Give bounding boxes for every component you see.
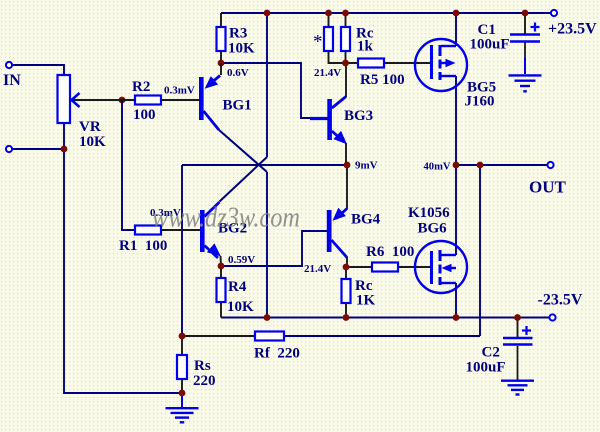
node 9mV — [344, 162, 351, 169]
resistor Rc 1K bottom — [342, 279, 351, 303]
svg-text:J160: J160 — [465, 94, 495, 110]
node BG5 drain at +rail — [453, 10, 460, 17]
wire OUT to Rf vertical x=480 — [479, 165, 481, 336]
wire BG2 collector diagonal (cross-couple) — [220, 157, 268, 202]
resistor Rf 220 — [255, 332, 284, 341]
svg-text:R5 100: R5 100 — [360, 72, 405, 88]
wire BG1 collector to -rail (vertical x=266) — [266, 172, 268, 318]
wire C1 to ground — [524, 43, 526, 61]
ground main — [166, 407, 199, 409]
wire BG4 collector to 21.4V node — [346, 257, 348, 267]
svg-text:1k: 1k — [357, 39, 374, 55]
terminal -23.5V — [549, 314, 555, 320]
terminal +23.5V — [551, 10, 557, 16]
resistor R1 100 — [135, 226, 161, 235]
svg-text:BG3: BG3 — [344, 108, 373, 124]
wire Rc-bottom leads — [345, 267, 347, 318]
svg-text:VR: VR — [79, 119, 101, 135]
svg-text:R1 100: R1 100 — [119, 238, 167, 254]
svg-text:BG4: BG4 — [351, 212, 381, 228]
wire BG3 collector to 21.4V node — [345, 63, 347, 97]
node Rs bottom / ground — [179, 390, 186, 397]
svg-text:100uF: 100uF — [466, 360, 506, 376]
capacitor C2 100uF — [503, 337, 533, 340]
svg-text:-23.5V: -23.5V — [538, 292, 583, 309]
svg-text:BG1: BG1 — [223, 98, 252, 114]
resistor R2 100 — [135, 96, 161, 105]
wire R5 row to BG5 gate — [346, 62, 432, 64]
transistor BG3 (NPN) — [327, 99, 332, 140]
svg-text:1K: 1K — [356, 293, 376, 309]
transistor BG4 (PNP) — [327, 210, 332, 252]
wire VR bottom down and right to Rs ground — [64, 123, 182, 393]
MOSFET BG6 K1056 (N-channel) — [415, 241, 467, 293]
node Rc-top at +rail — [342, 10, 349, 17]
wire C2 to -rail — [517, 318, 519, 338]
wire IN top to VR — [11, 65, 64, 75]
wire BG3 emitter to 9mV node — [345, 143, 347, 165]
resistor R6 100 — [372, 263, 398, 272]
MOSFET BG5 J160 (P-channel) — [415, 39, 467, 91]
potentiometer VR 10K — [58, 75, 71, 123]
svg-text:9mV: 9mV — [355, 160, 378, 172]
wire R6 row to BG6 gate — [346, 266, 431, 268]
node 40mV / OUT junction — [453, 162, 460, 169]
terminal IN top — [6, 62, 12, 68]
node C2 at -rail — [514, 314, 521, 321]
resistor R3 10K — [217, 27, 226, 51]
resistor R4 10K — [217, 278, 226, 302]
node BG1 collector at -rail — [264, 314, 271, 321]
transistor BG1 (PNP) — [199, 77, 204, 120]
wire BG5 source to OUT node — [455, 76, 457, 165]
terminal OUT — [547, 162, 553, 168]
svg-text:0.3mV: 0.3mV — [164, 85, 195, 97]
wire 0.59V node to BG4 base — [221, 231, 327, 266]
svg-text:R6 100: R6 100 — [366, 244, 414, 260]
wire VR wiper to R2 node — [71, 99, 122, 101]
node BG2 collector at +rail — [264, 10, 271, 17]
wire R4 leads — [220, 266, 222, 318]
node 0.6V — [218, 60, 225, 67]
wire bottom -V rail — [221, 317, 550, 319]
node C1 at +rail — [522, 10, 529, 17]
node Rc-bottom at -rail — [343, 314, 350, 321]
svg-text:0.6V: 0.6V — [227, 67, 249, 79]
wire Rc-top leads — [345, 13, 347, 63]
node 21.4V bottom — [343, 264, 350, 271]
node wiper / R2 junction — [119, 97, 126, 104]
resistor star (asterisk) — [324, 27, 333, 51]
svg-text:10K: 10K — [79, 134, 106, 150]
svg-text:K1056: K1056 — [408, 205, 450, 221]
svg-text:C2: C2 — [482, 345, 500, 361]
wire BG5 drain to +rail — [455, 13, 457, 46]
ground below C1 — [509, 74, 542, 76]
svg-text:R2: R2 — [132, 79, 150, 95]
wire R2 node down to R1 — [122, 100, 135, 230]
wire BG4 emitter to 9mV node — [346, 165, 348, 209]
resistor R5 100 — [358, 59, 384, 68]
wire Rf row right — [284, 335, 480, 337]
svg-text:220: 220 — [193, 373, 216, 389]
svg-text:40mV: 40mV — [424, 161, 451, 173]
wire BG2 collector to +rail (vertical x=267) — [266, 13, 268, 157]
svg-text:21.4V: 21.4V — [304, 263, 331, 275]
wire R1 to BG2 base — [161, 229, 200, 231]
wire IN bottom to VR — [11, 148, 64, 150]
svg-text:R3: R3 — [229, 26, 247, 42]
svg-text:10K: 10K — [227, 299, 254, 315]
wire feedback node vertical x=182 — [181, 165, 183, 336]
wire R3 leads — [220, 13, 222, 63]
wire R2 leads — [122, 99, 199, 101]
svg-text:+23.5V: +23.5V — [548, 21, 597, 38]
node BG6 source at -rail — [453, 314, 460, 321]
svg-text:R4: R4 — [228, 279, 247, 295]
svg-text:Rf 220: Rf 220 — [254, 346, 300, 362]
node star resistor at +rail — [325, 10, 332, 17]
svg-text:Rs: Rs — [194, 358, 211, 374]
wire Rf row left — [182, 335, 255, 337]
svg-text:IN: IN — [3, 72, 21, 89]
capacitor C1 100uF — [510, 33, 540, 36]
wire Rs leads — [181, 336, 183, 393]
node VR bottom / IN junction — [61, 146, 68, 153]
wire BG6 drain to OUT node — [455, 165, 457, 255]
svg-text:OUT: OUT — [529, 178, 567, 197]
transistor BG2 (NPN) — [200, 210, 205, 252]
wire 0.6V node to BG3 base — [221, 63, 328, 118]
wire C1 to +rail — [524, 13, 526, 34]
svg-text:www.dz3w.com: www.dz3w.com — [152, 203, 300, 234]
terminal IN bottom — [6, 146, 12, 152]
svg-text:21.4V: 21.4V — [314, 67, 341, 79]
node OUT branch to Rf — [477, 162, 484, 169]
node 0.59V — [218, 263, 225, 270]
wire top +V rail — [221, 12, 551, 14]
ground below C2 — [501, 380, 534, 382]
wire 9mV node horizontal — [182, 164, 347, 166]
resistor Rs 220 — [177, 355, 187, 379]
resistor Rc 1k top — [341, 27, 350, 51]
wire Rs ground stub — [181, 393, 183, 407]
wire C2 to ground — [517, 346, 519, 380]
wire BG1 collector diagonal (cross-couple) — [219, 130, 267, 172]
svg-text:0.59V: 0.59V — [228, 254, 255, 266]
node Rf/Rs junction — [179, 333, 186, 340]
svg-text:BG6: BG6 — [418, 221, 448, 237]
svg-text:100: 100 — [133, 107, 156, 123]
svg-text:10K: 10K — [228, 41, 255, 57]
wire BG6 source to -rail — [455, 283, 457, 318]
wire resistor-star leads — [329, 13, 346, 63]
svg-text:100uF: 100uF — [470, 37, 510, 53]
node 21.4V top — [342, 60, 349, 67]
svg-text:*: * — [313, 32, 323, 53]
wire OUT rail — [456, 164, 547, 166]
